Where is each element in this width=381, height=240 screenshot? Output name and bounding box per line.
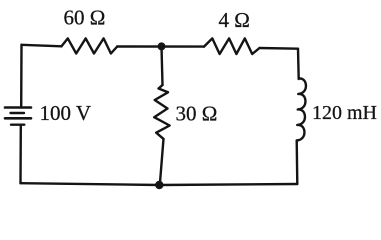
- svg-text:4 Ω: 4 Ω: [219, 8, 250, 32]
- wire R4 to top-right corner: [260, 47, 299, 50]
- resistor 4 ohm: [204, 38, 260, 54]
- battery plate 2 short: [11, 112, 25, 114]
- wire bottom: [21, 183, 298, 185]
- wire node A down to R30: [162, 46, 163, 85]
- wire top-left to R 60: [22, 45, 62, 47]
- wire R30 to bottom node: [160, 139, 164, 185]
- node A junction dot (top): [158, 42, 166, 50]
- wire left vertical upper (top to battery): [20, 45, 23, 107]
- resistor 60 ohm: [62, 38, 118, 53]
- wire R60 to node A and to R4: [117, 45, 204, 47]
- inductor 120 mH: [297, 78, 306, 140]
- battery plate 4 short: [11, 123, 24, 125]
- svg-text:100 V: 100 V: [40, 101, 92, 125]
- resistor 30 ohm vertical: [154, 85, 169, 139]
- svg-text:30 Ω: 30 Ω: [176, 102, 218, 126]
- wire right vertical lower: [296, 141, 299, 185]
- wire left vertical lower (battery to bottom): [19, 126, 22, 184]
- battery plate 3 long: [5, 117, 31, 120]
- svg-text:120 mH: 120 mH: [312, 102, 377, 124]
- svg-text:60 Ω: 60 Ω: [64, 6, 106, 30]
- wire right vertical upper: [297, 49, 300, 79]
- node B junction dot (bottom): [155, 181, 163, 189]
- battery 100 V plate 1 long: [5, 106, 31, 109]
